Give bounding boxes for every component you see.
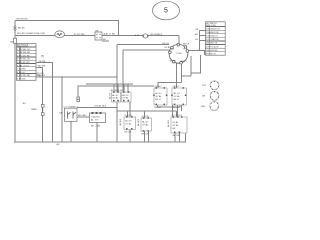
svg-text:GY OR: GY OR	[125, 115, 132, 117]
connector circle P4	[201, 102, 219, 111]
svg-text:BK LB: BK LB	[163, 43, 170, 45]
svg-text:7 LB WIL: 7 LB WIL	[17, 69, 27, 71]
svg-text:BK OR: BK OR	[142, 133, 149, 135]
wire L drop from BK box area	[116, 45, 118, 143]
svg-text:7 AL GROUND: 7 AL GROUND	[206, 49, 218, 52]
wire switch bottom drops	[176, 64, 178, 89]
connector circle P2	[202, 81, 219, 90]
svg-text:AL GY: AL GY	[155, 92, 162, 95]
engine circle 5	[153, 1, 180, 20]
key switch S1	[169, 43, 189, 64]
svg-text:A-AL LT RD: A-AL LT RD	[104, 32, 116, 35]
wire left battery bus vertical	[14, 20, 16, 142]
svg-text:AL WIL: AL WIL	[119, 118, 122, 126]
junction	[61, 76, 62, 77]
wire stub from BK box	[102, 40, 109, 42]
svg-text:GY AL: GY AL	[125, 123, 132, 126]
svg-text:ST RC RM: ST RC RM	[74, 34, 85, 36]
svg-text:RD WIL: RD WIL	[37, 73, 45, 75]
svg-text:5 AC IRDT OR: 5 AC IRDT OR	[206, 42, 218, 45]
svg-text:2 OR WIL BK: 2 OR WIL BK	[17, 52, 31, 54]
svg-text:SP BL: SP BL	[164, 47, 171, 49]
svg-text:OR GY: OR GY	[155, 86, 163, 88]
svg-text:AL GY: AL GY	[174, 92, 181, 95]
svg-text:C-RD: C-RD	[176, 53, 182, 55]
svg-text:KM2: KM2	[201, 106, 206, 108]
svg-text:3 GROUND LB: 3 GROUND LB	[206, 36, 218, 38]
svg-text:OR: OR	[195, 29, 199, 31]
wire C-T bottom pin	[70, 121, 72, 142]
wire switch to table row2	[199, 34, 205, 36]
wire top horizontal bus	[15, 20, 119, 35]
wire sq feed	[86, 83, 133, 85]
svg-text:AL GY: AL GY	[91, 119, 99, 122]
svg-text:AL GY: AL GY	[125, 120, 132, 123]
connector box BK	[95, 32, 102, 40]
wire table bottom stub	[36, 75, 40, 77]
svg-text:MBRL: MBRL	[31, 109, 38, 111]
wire switch to table row3	[199, 39, 205, 41]
wire main feed horizontal	[15, 34, 179, 36]
wire to switch left pin	[117, 44, 169, 46]
svg-text:4 GY WIL LB: 4 GY WIL LB	[17, 59, 30, 61]
svg-text:AL WIL: AL WIL	[137, 118, 140, 126]
key switch connector table (left)	[17, 44, 37, 81]
svg-text:RD WIL RD: RD WIL RD	[17, 19, 29, 21]
svg-text:BK GY: BK GY	[155, 107, 162, 109]
wire module B bottom drops	[144, 131, 146, 142]
svg-text:BK LT: BK LT	[174, 99, 181, 101]
svg-text:AL GY: AL GY	[108, 92, 111, 99]
wire bottom link	[117, 110, 177, 112]
svg-text:GY AL: GY AL	[155, 95, 162, 98]
svg-text:AL GY: AL GY	[112, 94, 119, 97]
svg-text:OR WIL: OR WIL	[38, 61, 47, 63]
svg-text:GY AL: GY AL	[122, 97, 129, 100]
svg-text:1 RD WIL GY: 1 RD WIL GY	[17, 49, 31, 51]
wire relay bottom loop	[158, 105, 180, 107]
wire switch to table row1	[199, 29, 205, 31]
svg-text:A-AL: A-AL	[135, 34, 141, 37]
svg-text:RD WIL: RD WIL	[38, 66, 46, 68]
svg-text:AL GY: AL GY	[142, 121, 149, 124]
wire sq pin drops	[113, 84, 115, 92]
svg-text:3 GY BK: 3 GY BK	[17, 79, 26, 81]
svg-text:GY OR: GY OR	[142, 116, 149, 118]
svg-text:4 OIL START RD: 4 OIL START RD	[206, 38, 220, 41]
wire module C bottom drops	[174, 133, 176, 142]
svg-text:6 PRE CD AL BK: 6 PRE CD AL BK	[206, 45, 220, 48]
svg-text:OR GY: OR GY	[173, 86, 181, 88]
svg-text:BK — BK: BK — BK	[91, 126, 101, 128]
svg-text:1 ACCESSORI GY: 1 ACCESSORI GY	[206, 27, 221, 30]
connector circle P3	[202, 91, 219, 100]
svg-text:GY4 AL BLK: GY4 AL BLK	[94, 105, 107, 108]
svg-text:5 RD BK WIL: 5 RD BK WIL	[17, 62, 31, 64]
connector MBRL inline	[41, 105, 44, 108]
svg-text:GY PL: GY PL	[170, 61, 177, 63]
wire switch B pin link	[189, 51, 205, 56]
module C	[171, 116, 187, 133]
wire table long row	[36, 76, 117, 78]
svg-text:RD WIRE R: RD WIRE R	[151, 34, 163, 36]
wire second drop	[122, 50, 124, 92]
wire relay feed horizontal	[78, 86, 154, 97]
relay R1	[153, 87, 167, 105]
plug P1	[77, 97, 80, 99]
svg-text:AL GY: AL GY	[122, 94, 129, 97]
svg-text:20A: 20A	[10, 41, 14, 44]
svg-text:BLK RD 20 AMP FUSE LINK: BLK RD 20 AMP FUSE LINK	[17, 32, 46, 35]
wire drop to key switch	[178, 35, 180, 44]
svg-text:8 BK GY: 8 BK GY	[17, 72, 26, 74]
svg-text:(7): (7)	[41, 54, 44, 58]
svg-text:BK LR: BK LR	[183, 43, 190, 45]
wire module C top pins up	[172, 105, 174, 117]
svg-text:3 BK WIL RD: 3 BK WIL RD	[17, 55, 30, 57]
svg-text:8 BT WIL GY: 8 BT WIL GY	[206, 54, 217, 56]
svg-text:RD BK: RD BK	[18, 27, 25, 29]
svg-text:4 GY WIL RD: 4 GY WIL RD	[17, 75, 31, 77]
svg-text:KM: KM	[202, 85, 205, 87]
svg-text:GY AL: GY AL	[142, 124, 149, 127]
fuse F2 inline	[143, 34, 147, 38]
svg-text:AL WIL: AL WIL	[167, 119, 170, 127]
svg-text:AL HL AL HL: AL HL AL HL	[111, 89, 124, 92]
key switch wire code table (right)	[206, 22, 226, 56]
svg-text:ST AL: ST AL	[172, 121, 179, 124]
svg-text:BK GY: BK GY	[173, 107, 180, 109]
module sq2	[122, 91, 132, 102]
svg-text:C-AL RD: C-AL RD	[91, 115, 100, 118]
wire table row OR WIL	[36, 63, 52, 142]
svg-text:BK LT: BK LT	[155, 99, 162, 101]
wire sq2 bottom drop	[129, 102, 131, 142]
wire switch SE nest	[191, 55, 200, 73]
wire relay top link	[158, 83, 182, 88]
svg-text:GY AL: GY AL	[174, 95, 181, 98]
wire C-T to C-AL	[77, 116, 90, 118]
svg-text:BK OR: BK OR	[125, 131, 132, 133]
svg-text:WIRE CODE: WIRE CODE	[206, 25, 217, 27]
wire table riser	[198, 30, 200, 50]
svg-text:GY: GY	[84, 115, 88, 117]
connector J1 on battery bus	[14, 26, 16, 28]
svg-text:GY AL: GY AL	[112, 97, 119, 100]
module sq1	[112, 91, 121, 102]
svg-text:2 MAGNETO BK: 2 MAGNETO BK	[206, 31, 220, 34]
module A	[124, 116, 136, 129]
fuse F1 rect on battery bus	[13, 38, 16, 43]
wire to switch lower left pin	[123, 49, 170, 51]
relay R2	[171, 87, 186, 105]
svg-text:GY OR ST: GY OR ST	[172, 115, 183, 117]
svg-text:GY AL: GY AL	[172, 124, 179, 127]
wire table row RD WIL	[36, 68, 43, 143]
wire C-AL bottom pin	[96, 123, 98, 143]
module B	[141, 117, 152, 132]
svg-text:BK OR: BK OR	[173, 135, 180, 137]
wire GY4 AL BLK	[77, 107, 117, 109]
module C-AL	[90, 113, 106, 123]
wire drop mid	[61, 77, 63, 142]
switch box C-T	[65, 108, 78, 121]
svg-text:5: 5	[164, 8, 168, 15]
ground bus	[14, 134, 186, 143]
svg-text:6 OR LT GY: 6 OR LT GY	[17, 65, 29, 67]
svg-text:OR LT: OR LT	[181, 61, 188, 63]
ammeter circle A1	[55, 31, 65, 38]
svg-text:RD WIL: RD WIL	[38, 75, 46, 77]
